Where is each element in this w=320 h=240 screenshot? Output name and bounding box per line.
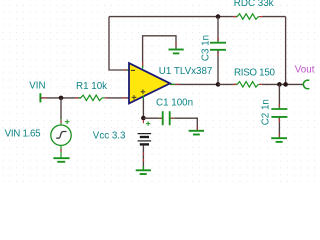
battery Vcc 3.3 — [138, 121, 152, 144]
wire C1 to its ground — [175, 118, 198, 130]
pin stub V+ supply — [142, 96, 144, 100]
resistor RISO 150 — [234, 82, 262, 88]
op-amp U1 triangle — [129, 63, 170, 103]
svg-text:C2 1n: C2 1n — [260, 99, 271, 125]
wire battery to ground — [142, 146, 144, 170]
wire R1 to op-amp noninverting input — [106, 97, 129, 99]
svg-text:U1 TLVx387: U1 TLVx387 — [159, 66, 213, 77]
wire top rail junction to RDC — [218, 16, 237, 18]
svg-text:RDC 33k: RDC 33k — [234, 0, 274, 9]
capacitor C3 1n — [210, 17, 226, 85]
capacitor C1 100n — [163, 111, 175, 125]
pin stub inverting input — [125, 69, 129, 71]
wire feedback: inverting input to top loop — [109, 17, 129, 70]
wire junction A to R1 — [61, 97, 81, 99]
wire right rail down to output node — [285, 17, 287, 85]
plus sign positive supply — [141, 91, 146, 93]
node Vout output terminal — [303, 80, 309, 89]
pin stub VG top — [60, 118, 62, 125]
ground at V- supply — [169, 50, 184, 54]
junction C2 tap — [277, 82, 282, 87]
wire op-amp output — [170, 83, 218, 85]
pin stub output — [171, 83, 176, 85]
resistor RDC 33k — [234, 14, 262, 19]
ground below source VIN — [53, 158, 69, 162]
source VIN 1.65 generator — [51, 119, 71, 145]
pin stub V- supply — [142, 65, 144, 69]
resistor R1 — [78, 95, 107, 101]
wire Vcc node to C1 — [143, 117, 162, 119]
wire RISO to Vout node — [262, 83, 304, 85]
wire V+ supply pin down to Vcc node — [142, 96, 144, 118]
svg-text:RISO 150: RISO 150 — [234, 67, 275, 78]
svg-text:VIN: VIN — [29, 80, 45, 91]
ground below battery — [136, 170, 151, 174]
plus sign battery — [146, 123, 150, 125]
svg-text:VIN 1.65: VIN 1.65 — [5, 129, 42, 140]
wire output node to RISO — [218, 83, 237, 85]
svg-text:R1 10k: R1 10k — [76, 81, 107, 92]
junction RDC rail tap — [283, 82, 288, 87]
ground below C2 — [271, 138, 287, 142]
wire junction A down to source VIN — [60, 98, 62, 119]
junction Vcc node — [141, 116, 146, 121]
wire V- supply pin loop to ground — [143, 36, 176, 68]
plus sign noninverting input — [132, 96, 137, 98]
ground at C1 — [189, 131, 204, 135]
wire source VIN to ground — [60, 145, 62, 157]
minus sign inverting input — [131, 69, 135, 71]
wire RDC to right rail corner — [262, 16, 286, 18]
junction node A — [59, 96, 64, 101]
svg-text:C3 1n: C3 1n — [201, 35, 212, 61]
node VIN input terminal — [39, 93, 41, 102]
svg-text:Vcc 3.3: Vcc 3.3 — [93, 131, 126, 142]
wire VIN terminal to junction A — [40, 97, 61, 99]
svg-text:C1 100n: C1 100n — [156, 97, 193, 108]
junction output / C3 — [216, 82, 221, 87]
wire top feedback rail left — [109, 16, 218, 18]
junction top rail / C3 — [216, 14, 221, 19]
svg-text:Vout: Vout — [295, 65, 315, 76]
pin marks (red connection tips) — [42, 17, 279, 162]
capacitor C2 1n — [271, 84, 287, 137]
